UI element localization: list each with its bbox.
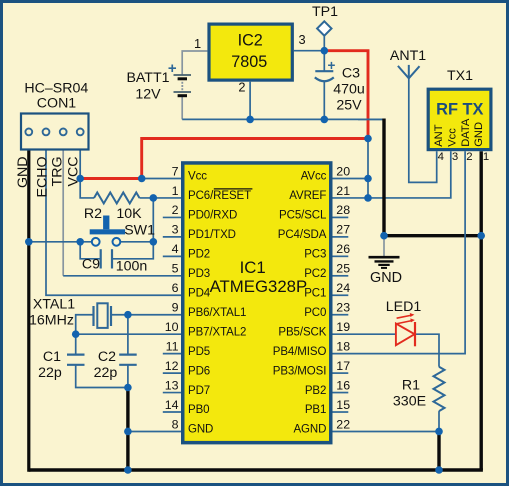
svg-text:6: 6 (172, 281, 179, 295)
svg-text:11: 11 (166, 339, 179, 353)
connector CON1 HC-SR04 (21, 81, 89, 150)
svg-text:17: 17 (336, 359, 350, 373)
svg-text:Vcc: Vcc (447, 128, 459, 147)
svg-text:PB3/MOSI: PB3/MOSI (273, 365, 327, 377)
svg-text:R2: R2 (84, 206, 102, 222)
node 20 (435, 428, 443, 436)
TX1 pin 3 Vcc label (447, 128, 459, 163)
svg-text:PD3: PD3 (188, 268, 210, 280)
node 7 (364, 175, 372, 183)
IC1 right pin 24 (PC1) (304, 281, 350, 299)
RF transmitter module TX1 (428, 68, 491, 150)
IC1 right pin 26 (PC3) (304, 242, 350, 260)
node 3 (138, 175, 146, 183)
node 4 (76, 175, 84, 183)
IC1 left pin 10 (PB7/XTAL2) (165, 320, 247, 338)
IC1 right pin 18 (PB4/MISO) (273, 339, 350, 357)
wire: CON1 ECHO column to IC1 pin 6 (46, 151, 181, 296)
svg-text:GND: GND (473, 122, 485, 147)
IC1 left pin 9 (PB6/XTAL1) (172, 301, 247, 319)
wire: ground rail from battery to black drop (node at IC2 pin2 / C3) (182, 118, 384, 120)
svg-text:25V: 25V (336, 98, 362, 114)
svg-text:AVREF: AVREF (289, 190, 326, 202)
svg-text:ANT: ANT (433, 124, 445, 147)
svg-text:9: 9 (172, 301, 179, 315)
svg-text:C1: C1 (43, 349, 61, 365)
wire: IC1 pin 18 line to TX1 DATA pin 2 (333, 151, 466, 353)
wire: crystal right node down to C2 top (127, 315, 129, 355)
svg-text:LED1: LED1 (386, 299, 422, 315)
svg-text:ATMEG328P: ATMEG328P (210, 277, 308, 296)
wire: C3 bottom lead to rail (323, 82, 325, 120)
IC1 left pin 14 (PB0) (163, 398, 210, 416)
svg-text:BATT1: BATT1 (126, 70, 169, 86)
node 11 (150, 238, 158, 246)
node 12 (25, 238, 33, 246)
svg-text:PD6: PD6 (188, 365, 210, 377)
antenna ANT1 (390, 48, 426, 78)
IC1 right pin 27 (PC4/SDA) (278, 223, 350, 241)
svg-text:PD0/RXD: PD0/RXD (188, 210, 237, 222)
IC1 right pin 21 (AVREF) (289, 184, 350, 202)
capacitor C2 22p (94, 349, 137, 381)
node 16 (124, 428, 132, 436)
wire: IC1 pin 21 line to TX1 Vcc pin 3 (333, 151, 451, 198)
svg-text:470u: 470u (333, 82, 365, 98)
node 9 (150, 194, 158, 202)
svg-text:PC6/RESET: PC6/RESET (188, 190, 251, 202)
CON1 VCC pin label (66, 157, 82, 187)
TX1 pin 1 GND label (473, 122, 489, 163)
svg-text:PC4/SDA: PC4/SDA (278, 229, 327, 241)
node 13 (124, 311, 132, 319)
svg-text:27: 27 (336, 223, 350, 237)
wire: SW1 right contact to node (120, 241, 153, 243)
wire: GND column to SW1 left node (29, 241, 92, 243)
wire: node down to C1 top (75, 334, 77, 354)
svg-text:22p: 22p (38, 365, 62, 381)
IC1 left pin 4 (PD2) (163, 242, 210, 260)
node 18 (380, 232, 388, 240)
node 8 (364, 194, 372, 202)
svg-text:19: 19 (336, 320, 350, 334)
wire: IC2 pin 3 lead to TP1 node (294, 50, 324, 52)
svg-text:22: 22 (336, 417, 350, 431)
wire: TP1 stem (323, 36, 325, 51)
svg-text:22p: 22p (94, 365, 118, 381)
wire: crystal left lead down to pin10 node (76, 315, 94, 334)
svg-text:PC0: PC0 (304, 307, 326, 319)
svg-text:Vcc: Vcc (188, 171, 207, 183)
node 21 (435, 466, 443, 474)
svg-text:25: 25 (336, 262, 350, 276)
IC2 pin 2 number (238, 80, 245, 95)
svg-text:16: 16 (336, 378, 350, 392)
resistor R2 10K (84, 192, 142, 221)
wire: battery bottom lead (181, 96, 183, 120)
wire: VCC node down to R2 left lead (80, 179, 94, 198)
svg-text:3: 3 (172, 223, 179, 237)
svg-text:PB5/SCK: PB5/SCK (278, 326, 326, 338)
IC1 left pin 12 (PD6) (163, 359, 210, 377)
svg-text:10K: 10K (116, 206, 142, 222)
svg-text:7805: 7805 (231, 53, 267, 71)
svg-text:14: 14 (165, 398, 179, 412)
svg-text:16MHz: 16MHz (29, 313, 74, 329)
IC1 right pin 28 (PC5/SCL) (279, 203, 350, 221)
svg-text:GND: GND (370, 270, 402, 286)
CON1 ECHO pin label (34, 157, 50, 198)
svg-text:2: 2 (172, 203, 179, 217)
IC1 left pin 11 (PD5) (163, 339, 210, 357)
IC2 pin 1 number (194, 36, 201, 51)
switch SW1 (90, 216, 155, 246)
wire: CON1 VCC column down to node (79, 151, 81, 179)
wire: IC2 pin 2 lead down to rail (249, 82, 251, 120)
svg-text:330E: 330E (393, 394, 426, 410)
svg-text:21: 21 (336, 184, 350, 198)
svg-text:5: 5 (172, 262, 179, 276)
IC1 right pin 17 (PB3/MOSI) (273, 359, 350, 377)
wire: C9 left lead (80, 242, 101, 259)
wire: blue drop from red corner node to IC1 pins 20/21 (367, 139, 369, 198)
svg-text:3: 3 (452, 151, 458, 163)
ground symbol (right) (369, 257, 402, 286)
svg-text:1: 1 (194, 36, 201, 51)
wire: C1 bottom to ground node (76, 365, 128, 388)
svg-text:PB6/XTAL1: PB6/XTAL1 (188, 307, 246, 319)
wire: black drop from rail to GND tee (382, 119, 385, 236)
capacitor C3 470u 25V (315, 58, 365, 114)
svg-text:DATA: DATA (460, 118, 472, 147)
IC1 left pin 8 (GND) (172, 417, 214, 435)
svg-text:PC3: PC3 (304, 249, 326, 261)
svg-text:ANT1: ANT1 (390, 48, 426, 64)
wire: black GND tee horizontal to TX1 GND column (384, 234, 481, 237)
IC1 right pin 15 (PB1) (305, 398, 350, 416)
svg-text:4: 4 (438, 151, 444, 163)
svg-text:2: 2 (466, 151, 472, 163)
wire: black drop from C1/C2 ground node to bottom rail (126, 388, 129, 471)
wire: IC1 pin 20 stub to drop node (333, 178, 369, 180)
svg-text:PD7: PD7 (188, 385, 210, 397)
TX1 pin 4 ANT label (433, 124, 445, 163)
svg-text:PC2: PC2 (304, 268, 326, 280)
node 19 (477, 232, 485, 240)
IC1 right pin 16 (PB2) (305, 378, 350, 396)
IC1 right pin 23 (PC0) (304, 301, 350, 319)
IC1 left pin 7 (Vcc) (172, 164, 208, 182)
svg-text:GND: GND (188, 424, 213, 436)
node 15 (124, 384, 132, 392)
wire: CON1 GND column (black) down to bottom rail (27, 151, 30, 472)
IC1 left pin 3 (PD1/TXD) (163, 223, 236, 241)
wire: IC1 pin 9 line to crystal right / C2 (111, 314, 181, 316)
svg-text:28: 28 (336, 203, 350, 217)
IC1 right pin 20 (AVcc) (301, 164, 350, 182)
capacitor C1 22p (38, 349, 84, 381)
svg-text:C3: C3 (342, 66, 360, 82)
svg-text:IC1: IC1 (240, 258, 266, 277)
svg-text:10: 10 (165, 320, 179, 334)
svg-text:8: 8 (172, 417, 179, 431)
svg-text:PD4: PD4 (188, 287, 211, 299)
svg-text:PD5: PD5 (188, 346, 210, 358)
wire: IC1 pin 10 line to node (76, 333, 181, 335)
svg-text:23: 23 (336, 301, 350, 315)
wire: +5V red rail from TP1 node to Vcc node of CON1 (80, 51, 368, 179)
svg-text:AVcc: AVcc (301, 171, 327, 183)
svg-text:12: 12 (165, 359, 179, 373)
IC1 right pin 19 (PB5/SCK) (278, 320, 350, 338)
node 2 (364, 135, 372, 143)
svg-text:13: 13 (165, 378, 179, 392)
svg-text:26: 26 (336, 242, 350, 256)
node 10 (76, 238, 84, 246)
wire: black drop from pin22 node to bottom rail (437, 431, 440, 470)
svg-text:PC1: PC1 (304, 287, 326, 299)
svg-text:4: 4 (172, 242, 179, 256)
svg-text:1: 1 (483, 151, 489, 163)
wire: gnd stem under tee node (383, 236, 385, 256)
svg-text:7: 7 (172, 164, 179, 178)
svg-text:R1: R1 (402, 378, 420, 394)
CON1 TRG pin label (50, 157, 66, 187)
svg-text:12V: 12V (135, 87, 161, 103)
IC1 left pin 6 (PD4) (172, 281, 211, 299)
IC1 left pin 5 (PD3) (172, 262, 210, 280)
node 5 (246, 116, 254, 124)
crystal XTAL1 16MHz (29, 297, 111, 329)
svg-text:3: 3 (298, 32, 305, 47)
svg-text:IC2: IC2 (238, 32, 263, 50)
node 14 (72, 330, 80, 338)
svg-text:18: 18 (336, 339, 350, 353)
svg-text:TP1: TP1 (312, 4, 338, 20)
IC1 right pin 22 (AGND) (293, 417, 350, 435)
IC1 left pin 13 (PD7) (163, 378, 210, 396)
svg-text:RF TX: RF TX (436, 101, 483, 119)
svg-text:100n: 100n (116, 259, 148, 275)
wire: TX1 pin 1 GND black column down to bottom rail (480, 151, 483, 470)
op-amp / MCU IC1 ATMEG328P body (183, 163, 331, 443)
LED LED1 (386, 299, 422, 346)
svg-text:XTAL1: XTAL1 (33, 297, 75, 313)
svg-text:PB7/XTAL2: PB7/XTAL2 (188, 326, 246, 338)
battery BATT1 12V (126, 60, 191, 103)
regulator IC2 7805 (209, 24, 292, 80)
wire: LED1 cathode to R1 top (415, 334, 440, 367)
svg-text:AGND: AGND (293, 424, 326, 436)
svg-text:PB0: PB0 (188, 404, 209, 416)
wire: R2 right lead to IC1 pin 1 (140, 197, 182, 199)
svg-text:1: 1 (172, 184, 179, 198)
svg-text:C2: C2 (98, 349, 116, 365)
node 6 (321, 116, 329, 124)
svg-text:+: + (328, 58, 336, 73)
wire: IC1 pin 19 line to LED1 anode (333, 333, 396, 335)
svg-text:PB1: PB1 (305, 404, 326, 416)
svg-text:PD2: PD2 (188, 249, 210, 261)
svg-text:GND: GND (15, 157, 31, 189)
svg-text:PB4/MISO: PB4/MISO (273, 346, 327, 358)
IC1 left pin 2 (PD0/RXD) (163, 203, 237, 221)
IC1 left pin 1 (PC6/RESET) (172, 184, 253, 202)
wire: bottom ground rail (29, 468, 483, 471)
resistor R1 330E (393, 367, 445, 411)
svg-text:PC5/SCL: PC5/SCL (279, 210, 327, 222)
wire: R1 bottom lead to pin22 node (438, 411, 440, 431)
wire: C3 top lead (323, 51, 325, 71)
svg-text:2: 2 (238, 80, 245, 95)
node 17 (124, 466, 132, 474)
wire: CON1 TRG column to IC1 pin 5 (63, 151, 181, 276)
svg-text:SW1: SW1 (124, 223, 155, 239)
svg-text:ECHO: ECHO (34, 157, 50, 198)
wire: R2/pin1 node down to SW1 right node (152, 198, 154, 242)
wire: IC1 pin 7 stub from red corner node (142, 178, 181, 180)
wire: TX1 pin 4 lead to antenna mast (409, 78, 437, 182)
svg-text:PB2: PB2 (305, 385, 326, 397)
svg-text:HC–SR04: HC–SR04 (24, 81, 88, 97)
svg-text:C9: C9 (82, 256, 100, 272)
capacitor C9 100n (82, 249, 147, 274)
IC1 right pin 25 (PC2) (304, 262, 350, 280)
wire: IC1 pin 8 GND line to black drop (128, 430, 181, 432)
TX1 pin 2 DATA label (460, 118, 473, 163)
CON1 GND pin label (15, 157, 31, 189)
svg-text:CON1: CON1 (37, 96, 77, 112)
svg-text:TRG: TRG (50, 157, 66, 187)
svg-text:24: 24 (336, 281, 350, 295)
svg-text:20: 20 (336, 164, 350, 178)
svg-text:PD1/TXD: PD1/TXD (188, 229, 236, 241)
wire: ground rail overdraw across red vertical (358, 118, 384, 120)
node 1 (321, 47, 329, 55)
test point TP1 (312, 4, 338, 36)
IC2 pin 3 number (298, 32, 305, 47)
wire: C2 bottom to ground node (127, 365, 129, 388)
wire: IC1 pin 22 AGND line to node (333, 430, 440, 432)
wire: C9 right lead (112, 242, 153, 259)
svg-text:15: 15 (336, 398, 350, 412)
svg-text:TX1: TX1 (447, 68, 473, 84)
wire: battery top lead to IC2 pin 1 (182, 51, 207, 75)
